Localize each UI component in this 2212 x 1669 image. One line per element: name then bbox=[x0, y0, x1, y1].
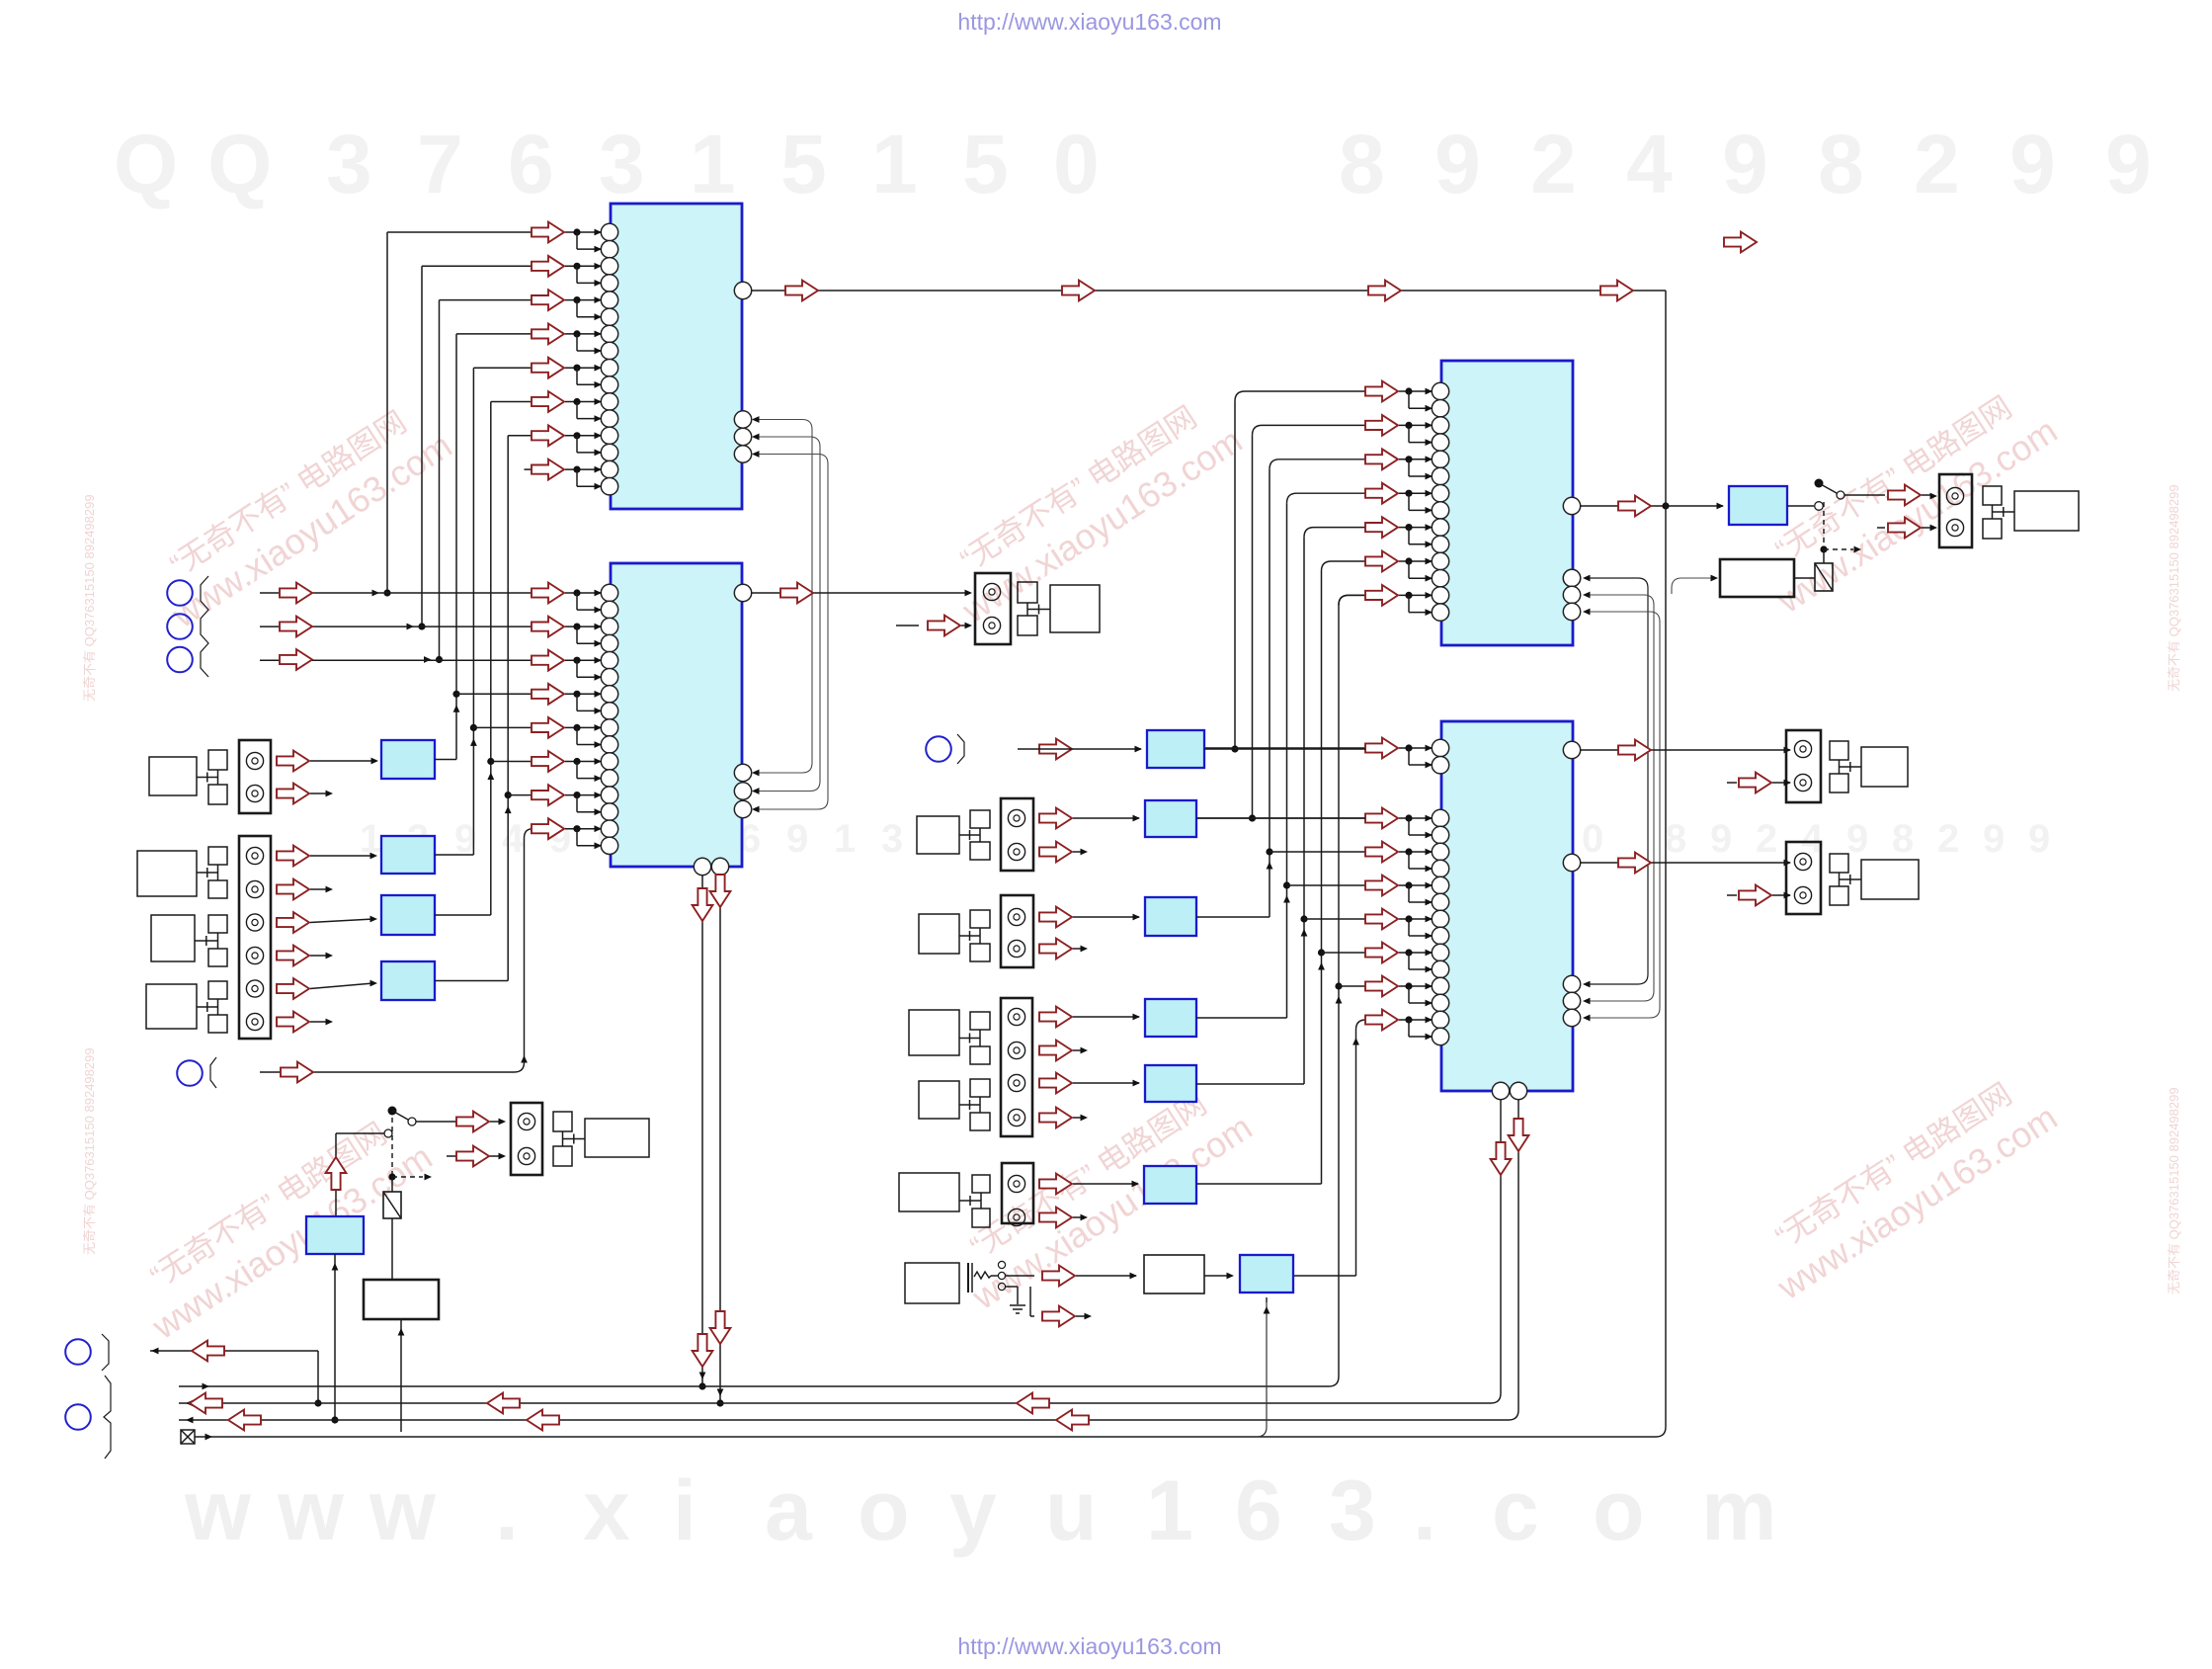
svg-text:3: 3 bbox=[881, 817, 903, 861]
svg-text:o: o bbox=[1593, 1463, 1645, 1558]
svg-text:6: 6 bbox=[1235, 1463, 1282, 1558]
svg-text:a: a bbox=[765, 1463, 813, 1558]
svg-text:u: u bbox=[1045, 1463, 1098, 1558]
svg-text:http://www.xiaoyu163.com: http://www.xiaoyu163.com bbox=[957, 1633, 1221, 1659]
svg-text:0: 0 bbox=[1582, 817, 1603, 861]
svg-text:9: 9 bbox=[2009, 118, 2056, 210]
svg-text:o: o bbox=[858, 1463, 910, 1558]
svg-text:2: 2 bbox=[1530, 118, 1577, 210]
svg-text:7: 7 bbox=[417, 118, 463, 210]
svg-text:9: 9 bbox=[2028, 817, 2050, 861]
svg-text:1: 1 bbox=[871, 118, 918, 210]
svg-text:9: 9 bbox=[1434, 118, 1481, 210]
svg-text:2: 2 bbox=[1937, 817, 1959, 861]
svg-text:3: 3 bbox=[326, 118, 372, 210]
svg-text:6: 6 bbox=[508, 118, 554, 210]
svg-text:3: 3 bbox=[599, 118, 645, 210]
svg-text:1: 1 bbox=[1146, 1463, 1193, 1558]
svg-text:1: 1 bbox=[690, 118, 736, 210]
svg-text:w: w bbox=[277, 1463, 345, 1558]
svg-text:http://www.xiaoyu163.com: http://www.xiaoyu163.com bbox=[957, 9, 1221, 35]
svg-text:9: 9 bbox=[1722, 118, 1768, 210]
svg-text:y: y bbox=[949, 1463, 997, 1558]
svg-text:x: x bbox=[583, 1463, 630, 1558]
svg-text:8: 8 bbox=[1892, 817, 1914, 861]
svg-text:9: 9 bbox=[786, 817, 808, 861]
svg-text:无奇不有 QQ376315150 892498299: 无奇不有 QQ376315150 892498299 bbox=[2167, 484, 2181, 692]
svg-text:w: w bbox=[369, 1463, 437, 1558]
svg-text:9: 9 bbox=[2105, 118, 2152, 210]
svg-text:m: m bbox=[1701, 1463, 1776, 1558]
svg-text:5: 5 bbox=[962, 118, 1009, 210]
svg-text:c: c bbox=[1492, 1463, 1539, 1558]
svg-text:.: . bbox=[1413, 1463, 1436, 1558]
svg-text:8: 8 bbox=[1665, 817, 1686, 861]
svg-text:9: 9 bbox=[1710, 817, 1732, 861]
svg-text:1: 1 bbox=[834, 817, 856, 861]
svg-text:5: 5 bbox=[780, 118, 827, 210]
svg-text:9: 9 bbox=[1846, 817, 1868, 861]
svg-text:Q: Q bbox=[114, 118, 178, 210]
svg-text:无奇不有 QQ376315150 892498299: 无奇不有 QQ376315150 892498299 bbox=[82, 1047, 97, 1255]
svg-text:i: i bbox=[673, 1463, 696, 1558]
svg-text:Q: Q bbox=[207, 118, 272, 210]
svg-text:9: 9 bbox=[1983, 817, 2005, 861]
svg-text:8: 8 bbox=[1818, 118, 1864, 210]
svg-text:0: 0 bbox=[1053, 118, 1100, 210]
svg-text:3: 3 bbox=[1329, 1463, 1376, 1558]
svg-text:无奇不有 QQ376315150 892498299: 无奇不有 QQ376315150 892498299 bbox=[2167, 1087, 2181, 1294]
svg-text:无奇不有 QQ376315150 892498299: 无奇不有 QQ376315150 892498299 bbox=[82, 494, 97, 702]
svg-text:4: 4 bbox=[1626, 118, 1673, 210]
svg-text:w: w bbox=[184, 1463, 252, 1558]
svg-text:4: 4 bbox=[502, 817, 525, 861]
svg-text:2: 2 bbox=[1756, 817, 1777, 861]
svg-text:8: 8 bbox=[1339, 118, 1385, 210]
svg-text:.: . bbox=[495, 1463, 519, 1558]
svg-text:2: 2 bbox=[1914, 118, 1960, 210]
